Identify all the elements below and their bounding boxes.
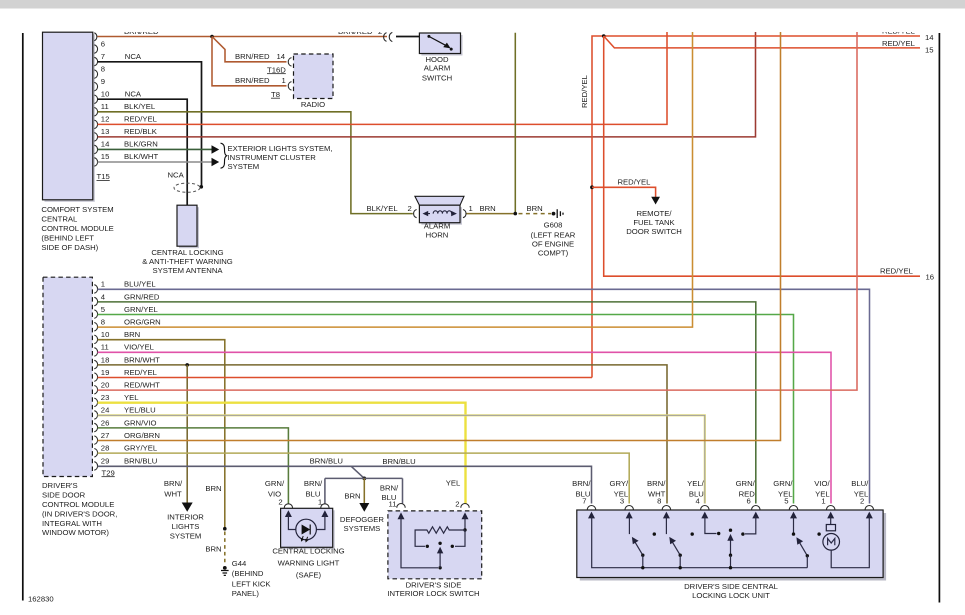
svg-text:COMPT): COMPT) <box>538 249 569 258</box>
lock unit pin4 contact dot <box>717 532 720 535</box>
svg-text:BRN: BRN <box>205 484 221 493</box>
lock unit center bus dot <box>729 566 732 569</box>
svg-text:9: 9 <box>101 77 105 86</box>
svg-text:OF ENGINE: OF ENGINE <box>532 240 574 249</box>
svg-text:SYSTEM: SYSTEM <box>228 162 260 171</box>
wire BRN/RED row 5 from U1 to in-line connector <box>98 36 388 38</box>
warning light pin 2 arc <box>284 504 292 508</box>
warning light LED triangle <box>302 525 311 535</box>
svg-text:DRIVER'S SIDE: DRIVER'S SIDE <box>406 580 462 589</box>
svg-text:GRN/RED: GRN/RED <box>124 292 160 301</box>
lock unit pin 8 entry arrow <box>663 512 670 519</box>
lock unit pin8 switch upper lead <box>665 517 667 535</box>
wire NCA from U1 pin 7 right and down <box>98 62 202 186</box>
svg-text:NCA: NCA <box>125 52 142 61</box>
svg-text:BRN: BRN <box>124 330 140 339</box>
lock unit pin 6 arc <box>752 506 760 510</box>
svg-text:CONTROL MODULE: CONTROL MODULE <box>41 224 113 233</box>
svg-text:2: 2 <box>455 499 459 508</box>
svg-text:RED/YEL: RED/YEL <box>580 74 589 108</box>
U2 pin 20 arc <box>94 386 97 395</box>
svg-text:LOCKING LOCK UNIT: LOCKING LOCK UNIT <box>692 591 770 600</box>
svg-text:PANEL): PANEL) <box>232 589 260 598</box>
U2 pin 10 arc <box>94 335 97 344</box>
svg-text:SIDE OF DASH): SIDE OF DASH) <box>41 243 98 252</box>
wire BRN/WHT row 18 to lock unit pin 8 <box>98 365 668 504</box>
svg-text:1: 1 <box>821 496 825 505</box>
svg-text:28: 28 <box>101 444 110 453</box>
lock switch pin 11 arc <box>397 504 405 508</box>
RADIO box (dashed connector box) <box>294 54 334 99</box>
radio pin 1 arc <box>288 82 291 91</box>
warning light DS1 box shadow <box>283 510 335 549</box>
wire ORG/GRN row 8 up to top crop <box>98 32 693 327</box>
wire BLK/YEL from U1 pin 11 to alarm horn pin 2 <box>98 112 413 214</box>
svg-text:(BEHIND LEFT: (BEHIND LEFT <box>41 233 94 242</box>
svg-text:T29: T29 <box>102 468 115 477</box>
wire RED/WHT row 20 up to top crop <box>98 32 858 390</box>
svg-text:BLK/GRN: BLK/GRN <box>124 140 158 149</box>
wire GRN/RED row 4 to lock unit pin 6 <box>98 302 756 504</box>
svg-text:162830: 162830 <box>28 595 54 604</box>
svg-text:BRN/RED: BRN/RED <box>235 52 270 61</box>
svg-text:BRN/: BRN/ <box>304 479 323 488</box>
U2 pin 28 arc <box>94 449 97 458</box>
svg-text:ALARM: ALARM <box>424 63 451 72</box>
clipped label sliver above row 5 near module <box>124 27 159 36</box>
svg-text:REMOTE/: REMOTE/ <box>636 209 672 218</box>
svg-text:YEL/: YEL/ <box>687 479 705 488</box>
node dot remote fuel branch <box>590 185 594 189</box>
wire BRN dashed to ground G608 <box>519 213 552 215</box>
lock unit pin 4 arc <box>701 506 709 510</box>
wire GRN/VIO row 26 to warning light pin 2 <box>98 428 289 504</box>
hood alarm switch S1 shadow <box>421 35 462 56</box>
lock unit pin 1 arc <box>827 506 835 510</box>
svg-text:T16D: T16D <box>267 65 286 74</box>
warning light pin 1 entry arrow <box>321 510 328 517</box>
lock switch blade with up arrow <box>439 550 441 568</box>
lock unit center blade up arrow <box>730 539 732 556</box>
svg-text:RED/YEL: RED/YEL <box>882 39 916 48</box>
lock unit pin3 blade dot <box>641 554 644 557</box>
wire BRN from horn pin 1 to splice <box>467 213 516 215</box>
warning light LED emission arrows <box>302 536 308 541</box>
arrow head defogger systems <box>359 503 369 512</box>
svg-text:COMFORT SYSTEM: COMFORT SYSTEM <box>41 205 113 214</box>
wire BRN/RED branch from node A down to radio T8 pin 1 <box>212 37 287 86</box>
wire BLK/WHT from U1 pin 15 to arrow <box>98 161 213 163</box>
lock unit pin8 bus dot <box>679 566 682 569</box>
arrow head remote fuel <box>651 197 660 205</box>
U1 pin 10 arc <box>94 95 97 104</box>
svg-text:CENTRAL: CENTRAL <box>41 214 78 223</box>
svg-text:SYSTEM: SYSTEM <box>170 531 202 540</box>
hood alarm switch blade with arrowhead <box>429 36 447 45</box>
warning light pin 1 arc <box>321 504 329 508</box>
svg-text:BRN: BRN <box>527 204 543 213</box>
arrow head exterior lights row 14 <box>212 145 220 154</box>
motor M1 lead from pin 1 <box>830 517 832 525</box>
svg-text:G608: G608 <box>544 220 563 229</box>
wire BRN branch down to defogger arrow <box>363 478 365 504</box>
svg-text:G44: G44 <box>232 559 247 568</box>
alarm horn trapezoid top <box>415 196 464 205</box>
svg-text:BLK/YEL: BLK/YEL <box>367 204 399 213</box>
lock unit pin 8 arc <box>662 506 670 510</box>
lock unit pin 4 entry arrow <box>701 512 708 519</box>
svg-text:4: 4 <box>696 496 701 505</box>
svg-text:1: 1 <box>282 76 286 85</box>
alarm horn pin 1 arc <box>463 210 466 218</box>
lock unit contact dot b <box>691 532 694 535</box>
svg-text:BRN: BRN <box>480 204 496 213</box>
svg-text:INSTRUMENT CLUSTER: INSTRUMENT CLUSTER <box>228 153 317 162</box>
lock switch pin 11 entry arrow <box>398 512 405 519</box>
wire BRN row 10 down to G44 splice <box>98 340 225 529</box>
node dot G44 splice <box>223 527 227 531</box>
svg-text:YEL/BLU: YEL/BLU <box>124 406 156 415</box>
svg-text:10: 10 <box>101 90 110 99</box>
svg-text:(LEFT REAR: (LEFT REAR <box>531 231 576 240</box>
svg-text:5: 5 <box>101 305 105 314</box>
module U1 COMFORT SYSTEM CENTRAL CONTROL MODULE box <box>43 32 93 200</box>
wire BRN dashed to G44 <box>224 532 226 566</box>
svg-text:6: 6 <box>101 39 105 48</box>
right page border <box>938 33 940 603</box>
wire BLU/YEL row 1 to lock unit pin 2 <box>98 289 870 503</box>
svg-text:INTERIOR: INTERIOR <box>167 513 204 522</box>
interior lock switch S2 box (dashed) <box>388 511 482 579</box>
svg-text:6: 6 <box>747 496 751 505</box>
arrow head interior lights system <box>182 503 193 512</box>
svg-text:RED/WHT: RED/WHT <box>124 381 160 390</box>
svg-text:12: 12 <box>101 115 110 124</box>
svg-text:BRN/RED: BRN/RED <box>235 76 270 85</box>
U2 pin 1 arc <box>94 285 97 294</box>
svg-text:GRN/YEL: GRN/YEL <box>124 305 158 314</box>
wire RED/BLK from U1 pin 13 right then up to top crop <box>98 32 756 137</box>
svg-text:ALARM: ALARM <box>424 222 451 231</box>
U2 pin 26 arc <box>94 423 97 432</box>
svg-text:SYSTEMS: SYSTEMS <box>344 524 381 533</box>
node A junction dot on row 5 at x212 <box>210 35 214 39</box>
lock unit pin5 blade <box>799 541 808 556</box>
lock unit pin 7 entry arrow <box>588 512 595 519</box>
lock unit pin6 lead elbow <box>745 517 756 534</box>
lock unit pin 1 entry arrow <box>827 512 834 519</box>
wire BLK/YEL long vertical from top crop to BRN splice <box>514 33 516 214</box>
wire RED/YEL long vertical (row19 up to terminal rows) <box>592 36 920 378</box>
U1 pin 11 arc <box>94 108 97 117</box>
svg-text:BRN/WHT: BRN/WHT <box>124 355 160 364</box>
lock unit pin5 blade dot <box>806 554 809 557</box>
svg-text:CENTRAL LOCKING: CENTRAL LOCKING <box>272 547 344 556</box>
in-line connector symbol on hood switch wire <box>384 32 393 41</box>
U2 pin 8 arc <box>94 323 97 332</box>
top gray strip <box>0 0 965 9</box>
svg-text:BRN: BRN <box>344 491 360 500</box>
svg-text:20: 20 <box>101 381 110 390</box>
svg-text:BLU/: BLU/ <box>851 479 869 488</box>
wire BRN/BLU diagonal branch <box>351 466 364 478</box>
svg-text:DRIVER'S: DRIVER'S <box>42 481 78 490</box>
svg-text:RADIO: RADIO <box>301 100 325 109</box>
warning light DS1 box <box>281 508 333 547</box>
lock unit pin 3 entry arrow <box>626 512 633 519</box>
svg-text:VIO/: VIO/ <box>814 479 830 488</box>
svg-text:1: 1 <box>101 280 105 289</box>
svg-text:HORN: HORN <box>426 231 449 240</box>
svg-text:WINDOW MOTOR): WINDOW MOTOR) <box>42 528 109 537</box>
svg-text:BRN/: BRN/ <box>164 479 183 488</box>
wire BRN/BLU row 29 to lock unit pin 7 <box>98 466 592 503</box>
svg-text:26: 26 <box>101 418 110 427</box>
lock unit pin 2 entry arrow <box>866 512 873 519</box>
svg-text:14: 14 <box>925 33 934 42</box>
svg-text:BLU/YEL: BLU/YEL <box>124 280 156 289</box>
svg-text:GRN/VIO: GRN/VIO <box>124 418 156 427</box>
U2 pin 5 arc <box>94 310 97 319</box>
svg-text:13: 13 <box>101 127 110 136</box>
wire GRY/YEL row 28 to lock unit pin 3 <box>98 453 630 503</box>
lock unit pin5 contact dot <box>792 532 795 535</box>
wire RED/YEL vertical down to terminal 16 row <box>604 36 920 276</box>
svg-text:GRN/: GRN/ <box>736 479 756 488</box>
node dot RED/YEL top row <box>602 34 606 38</box>
svg-text:BLK/YEL: BLK/YEL <box>124 102 156 111</box>
svg-text:(BEHIND: (BEHIND <box>232 569 264 578</box>
svg-text:YEL: YEL <box>446 478 461 487</box>
U1 pin 13 arc <box>94 133 97 142</box>
lock unit pin6 contact dot <box>741 532 744 535</box>
U2 pin 29 arc <box>94 462 97 471</box>
wire RED/YEL branch to remote fuel tank door switch arrow <box>592 187 656 198</box>
lock unit pin3 blade <box>634 541 643 555</box>
ground G44 symbol <box>221 571 229 576</box>
lock unit pin8 lower lead <box>679 555 681 568</box>
node dot BRN/WHT interior lights branch <box>185 363 189 367</box>
motor M1 letter <box>828 539 835 546</box>
lock switch pin 2 arc <box>461 504 469 508</box>
alarm horn box <box>419 205 460 223</box>
svg-text:11: 11 <box>101 102 109 111</box>
svg-text:BRN/BLU: BRN/BLU <box>310 456 343 465</box>
lock unit pin 2 arc <box>865 506 873 510</box>
svg-text:10: 10 <box>101 330 110 339</box>
lock switch right contact dot <box>451 545 454 548</box>
U2 pin 11 arc <box>94 348 97 357</box>
svg-text:EXTERIOR LIGHTS SYSTEM,: EXTERIOR LIGHTS SYSTEM, <box>228 144 333 153</box>
lock unit pin 3 arc <box>625 506 633 510</box>
svg-text:SWITCH: SWITCH <box>422 73 452 82</box>
U1 pin 9 arc <box>94 82 97 91</box>
svg-text:BRN/: BRN/ <box>647 479 666 488</box>
lock unit pin 7 arc <box>587 506 595 510</box>
resistor R1 in lock switch <box>415 527 465 547</box>
clipped label sliver above row 14 right <box>882 27 916 36</box>
lock switch pin 2 entry arrow <box>462 512 469 519</box>
wire RED/YEL row 19 to long vertical <box>98 377 593 379</box>
svg-text:8: 8 <box>657 496 661 505</box>
svg-text:WARNING LIGHT: WARNING LIGHT <box>278 559 340 568</box>
svg-text:T15: T15 <box>97 172 110 181</box>
svg-text:BRN/BLU: BRN/BLU <box>382 457 415 466</box>
clipped label sliver before hood switch connector <box>338 27 382 36</box>
U2 pin 23 arc <box>94 398 97 407</box>
module U2 DRIVER'S SIDE DOOR CONTROL MODULE box (dashed) <box>43 277 92 476</box>
svg-text:BLK/WHT: BLK/WHT <box>124 152 158 161</box>
central locking antenna box shadow <box>179 207 199 248</box>
svg-text:LIGHTS: LIGHTS <box>172 522 200 531</box>
svg-text:DOOR SWITCH: DOOR SWITCH <box>626 227 682 236</box>
antenna coupling loop (dashed ellipse) <box>174 183 200 192</box>
lock unit pin3 switch upper lead <box>628 517 630 535</box>
lock unit center top contact dot <box>729 529 732 532</box>
lock unit pin8 blade dot <box>679 554 682 557</box>
svg-text:8: 8 <box>101 64 105 73</box>
svg-text:4: 4 <box>101 292 106 301</box>
node dot BRN/BLU defogger junction <box>362 477 366 481</box>
motor M1 bottom lead to pin 2 <box>831 517 869 568</box>
node dot G44 <box>223 566 227 570</box>
ground G608 symbol <box>557 209 563 218</box>
svg-text:VIO/YEL: VIO/YEL <box>124 343 155 352</box>
arrow head exterior lights row 15 <box>212 158 220 166</box>
svg-text:7: 7 <box>582 496 586 505</box>
svg-text:24: 24 <box>101 406 110 415</box>
lock unit pin5 lower lead to bus end <box>806 556 808 568</box>
svg-text:CONTROL MODULE: CONTROL MODULE <box>42 500 114 509</box>
node dot at G608 <box>552 212 556 216</box>
svg-text:15: 15 <box>101 152 110 161</box>
svg-text:1: 1 <box>469 204 473 213</box>
U1 pin 14 arc <box>94 145 97 154</box>
svg-text:FUEL TANK: FUEL TANK <box>633 218 675 227</box>
wire BLK/GRN from U1 pin 14 to arrow <box>98 148 213 150</box>
svg-text:RED/YEL: RED/YEL <box>880 266 914 275</box>
svg-text:NCA: NCA <box>168 171 185 180</box>
svg-text:2: 2 <box>408 204 412 213</box>
lock unit U3 box <box>577 510 883 578</box>
warning light pin 2 entry arrow <box>285 510 292 517</box>
lock switch common dot <box>438 566 441 569</box>
node dot pin2/resistor <box>463 528 466 531</box>
hood alarm switch contact dot right <box>450 48 453 51</box>
svg-text:BRN: BRN <box>205 545 221 554</box>
svg-text:& ANTI-THEFT WARNING: & ANTI-THEFT WARNING <box>142 257 233 266</box>
svg-text:18: 18 <box>101 355 110 364</box>
svg-text:7: 7 <box>101 52 105 61</box>
wire YEL row 23 to interior lock switch pin 2 <box>98 403 466 504</box>
U2 pin 27 arc <box>94 436 97 445</box>
svg-text:(IN DRIVER'S DOOR,: (IN DRIVER'S DOOR, <box>42 509 117 518</box>
lock unit center lower lead <box>730 555 732 568</box>
lock unit internal bus <box>592 517 808 568</box>
lock unit pin5 lead <box>793 517 795 535</box>
svg-text:RED/YEL: RED/YEL <box>618 178 652 187</box>
svg-text:29: 29 <box>101 457 110 466</box>
alarm horn pin 2 arc <box>414 210 417 218</box>
svg-text:RED/BLK: RED/BLK <box>124 127 158 136</box>
hood alarm switch S1 box <box>419 33 460 54</box>
svg-text:INTEGRAL WITH: INTEGRAL WITH <box>42 519 102 528</box>
svg-text:LEFT KICK: LEFT KICK <box>232 579 272 588</box>
svg-text:BRN/: BRN/ <box>380 484 399 493</box>
curly brace for exterior lights systems <box>221 143 227 168</box>
module U1 COMFORT SYSTEM CENTRAL CONTROL MODULE shadow <box>45 34 95 202</box>
svg-text:19: 19 <box>101 368 110 377</box>
svg-text:14: 14 <box>101 140 110 149</box>
wire VIO/YEL row 11 to lock unit pin 1 <box>98 352 832 503</box>
motor M1 circle <box>823 534 840 551</box>
svg-text:SIDE DOOR: SIDE DOOR <box>42 490 86 499</box>
lock unit pin 5 arc <box>789 506 797 510</box>
wire RED/YEL diagonal to terminal 15 row <box>604 36 920 48</box>
svg-text:T8: T8 <box>271 90 280 99</box>
wire black from connector to hood alarm switch <box>396 36 419 38</box>
svg-text:ORG/GRN: ORG/GRN <box>124 318 161 327</box>
wire BRN/BLU cross link warning light pin1 to lock switch pin 11 <box>325 478 403 503</box>
svg-text:DRIVER'S SIDE CENTRAL: DRIVER'S SIDE CENTRAL <box>684 582 778 591</box>
svg-text:BRN/BLU: BRN/BLU <box>124 457 157 466</box>
U1 pin 12 arc <box>94 120 97 129</box>
lock switch blade top contact dot <box>438 542 441 545</box>
svg-text:2: 2 <box>860 496 864 505</box>
svg-text:BRN/: BRN/ <box>572 479 591 488</box>
svg-text:23: 23 <box>101 393 110 402</box>
wire GRN/YEL row 5 to lock unit pin 5 <box>98 315 794 504</box>
svg-text:RED/YEL: RED/YEL <box>124 115 158 124</box>
svg-text:14: 14 <box>277 52 286 61</box>
svg-text:SYSTEM ANTENNA: SYSTEM ANTENNA <box>152 266 223 275</box>
wire ORG/BRN row 27 up to top crop <box>98 32 781 441</box>
svg-text:11: 11 <box>389 499 397 508</box>
lock unit pin3 lower lead <box>642 555 644 568</box>
node: NCA pin7 end dot at antenna loop <box>200 185 204 189</box>
U1 pin 7 arc <box>94 57 97 66</box>
wire BRN/WHT branch down to interior lights arrow <box>186 365 188 504</box>
svg-text:5: 5 <box>784 496 788 505</box>
svg-text:WHT: WHT <box>164 490 182 499</box>
left page border <box>22 33 24 601</box>
wire BRN/RED branch diagonal from node A to radio T16D pin 14 <box>212 37 287 62</box>
lock unit pin4 lead elbow <box>705 517 717 534</box>
radio pin 14 arc <box>288 58 291 67</box>
U1 pin 8 arc <box>94 70 97 79</box>
svg-text:YEL: YEL <box>124 393 139 402</box>
alarm horn coil symbol with arrows <box>425 211 456 214</box>
lock unit contact dot a <box>653 532 656 535</box>
U2 pin 24 arc <box>94 411 97 420</box>
U1 pin 5 arc (partial, cut at top) <box>94 33 97 41</box>
svg-text:8: 8 <box>101 318 105 327</box>
hood alarm switch contact dot left <box>427 35 430 38</box>
svg-text:GRY/YEL: GRY/YEL <box>124 444 158 453</box>
warning light LED bar <box>309 525 311 535</box>
svg-text:11: 11 <box>101 343 109 352</box>
svg-text:ORG/BRN: ORG/BRN <box>124 431 160 440</box>
lock unit pin 5 entry arrow <box>790 512 797 519</box>
lock unit pin 6 entry arrow <box>752 512 759 519</box>
U1 pin 15 arc <box>94 158 97 167</box>
U1 pin 6 arc <box>94 45 97 54</box>
lock unit center blade dot <box>729 554 732 557</box>
svg-text:NCA: NCA <box>125 89 142 98</box>
svg-text:CENTRAL LOCKING: CENTRAL LOCKING <box>151 248 223 257</box>
lock unit U3 box shadow <box>580 513 886 581</box>
svg-text:GRY/: GRY/ <box>610 479 630 488</box>
